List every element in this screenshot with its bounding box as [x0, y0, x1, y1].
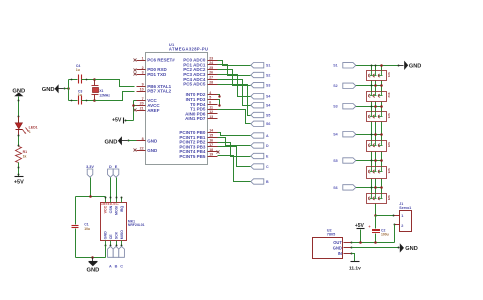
node flag E (MCU side) — [251, 153, 269, 158]
svg-text:25: 25 — [209, 66, 213, 70]
pin 18 unconnected mark — [217, 151, 220, 154]
wire GND to crystal rails — [65, 80, 70, 101]
node flag S1 (MCU side) — [251, 63, 271, 68]
supply +5V (below R1) — [14, 177, 24, 186]
pin CE MK1 (bottom) — [109, 234, 113, 247]
connector SV4 servo header — [367, 141, 392, 152]
svg-text:PB7 XTAL2: PB7 XTAL2 — [147, 89, 171, 94]
wire row S6 to servo bus — [356, 186, 383, 189]
svg-text:SV6: SV6 — [387, 195, 391, 200]
svg-text:CSN: CSN — [109, 205, 113, 213]
svg-text:S6: S6 — [333, 186, 337, 190]
wire U1 to flag A — [218, 133, 251, 136]
svg-text:27: 27 — [209, 76, 213, 80]
wire U1 to flag E — [218, 143, 251, 157]
pin 24 PC1 ADC1 U1 — [183, 61, 217, 67]
pin 8 GND U1 — [137, 137, 158, 143]
svg-text:10u: 10u — [84, 227, 90, 231]
wire +5V to VCC and AVCC — [125, 101, 137, 122]
svg-text:11.1v: 11.1v — [349, 266, 361, 272]
node flag S4 (servo side) — [333, 132, 356, 137]
svg-text:S3: S3 — [266, 84, 270, 88]
pin 19 PCINT5 PB5 U1 — [179, 153, 217, 159]
svg-text:SV5: SV5 — [387, 168, 391, 173]
svg-text:3: 3 — [142, 71, 144, 75]
svg-text:SCK: SCK — [114, 231, 118, 239]
svg-text:PC5 ADC5: PC5 ADC5 — [183, 82, 206, 87]
capacitor C1 10u — [72, 223, 90, 258]
wire R1 to +5V — [18, 163, 20, 177]
node flag S3 (MCU side) — [251, 82, 271, 87]
svg-text:18: 18 — [209, 148, 213, 152]
svg-text:S5: S5 — [266, 113, 270, 117]
connector J1 Servo1 (battery plug) — [394, 202, 412, 231]
node flag B (NRF SCK) — [113, 246, 119, 268]
svg-text:24: 24 — [209, 61, 213, 65]
pin 18 PCINT4 PB4 U1 — [179, 148, 217, 154]
node flag S4 (MCU side) — [251, 94, 271, 99]
svg-text:PD1 TXD: PD1 TXD — [147, 72, 167, 77]
svg-text:16: 16 — [209, 138, 213, 142]
pin 10 PB7 XTAL2 U1 — [137, 87, 172, 93]
wire row S1 to servo bus — [356, 64, 400, 67]
wire U1 to flag S2 row y=75.0 — [218, 65, 251, 76]
wire GND to pin 8 — [129, 140, 137, 142]
wire GND rail to ground — [352, 247, 399, 249]
svg-text:S2: S2 — [266, 73, 270, 77]
svg-text:7: 7 — [142, 97, 144, 101]
node flag C (MCU side) — [251, 164, 269, 169]
svg-text:S4: S4 — [266, 104, 270, 108]
pin 6 T0 PD4 U1 — [190, 101, 217, 107]
pin 21 AREF U1 — [134, 107, 160, 113]
IC U1 ATMEGA328P-PU — [146, 42, 209, 164]
node flag S2 (MCU side) — [251, 72, 271, 77]
svg-text:AIN1 PD7: AIN1 PD7 — [185, 116, 206, 121]
svg-text:MOSI: MOSI — [114, 206, 118, 215]
node flag C (NRF MISO) — [119, 246, 125, 268]
svg-text:C: C — [266, 165, 269, 169]
svg-text:GND: GND — [147, 138, 158, 143]
svg-text:AREF: AREF — [147, 108, 160, 113]
svg-text:9: 9 — [142, 83, 144, 87]
wire servo bus vertical 2 (+5V) — [375, 66, 377, 216]
svg-text:GND: GND — [333, 246, 342, 251]
svg-text:Servo1: Servo1 — [399, 206, 411, 210]
pin 12 AIN0 PD6 U1 — [185, 110, 217, 116]
wire NRF GND to ground and C1 — [76, 246, 106, 259]
supply +5V (MCU VCC) — [112, 118, 123, 124]
svg-text:1u: 1u — [76, 68, 80, 72]
svg-text:4: 4 — [209, 91, 211, 95]
svg-text:1: 1 — [142, 56, 144, 60]
pin 14 PCINT0 PB0 U1 — [179, 129, 217, 135]
pin SCK MK1 (bottom) — [114, 231, 118, 246]
node flag A (NRF CE) — [108, 246, 114, 268]
svg-text:28: 28 — [209, 80, 213, 84]
svg-text:S1: S1 — [266, 64, 270, 68]
svg-text:C: C — [120, 264, 123, 268]
node flag S1 (servo side) — [333, 63, 356, 68]
svg-text:S1: S1 — [333, 64, 337, 68]
pin 28 PC5 ADC5 U1 — [183, 80, 217, 86]
crystal X1 12MHz — [92, 78, 111, 102]
svg-text:S2: S2 — [333, 84, 337, 88]
node flag S2 (servo side) — [333, 83, 356, 88]
svg-text:S6: S6 — [266, 122, 270, 126]
wire OUT rail +5V — [352, 241, 395, 244]
wire J1 pin2 to OUT rail — [394, 225, 396, 243]
svg-text:7805: 7805 — [327, 232, 335, 236]
wire crystal to XTAL2 — [95, 92, 135, 101]
pin 7 VCC U1 — [137, 97, 158, 103]
wire servo bus vertical 3 (GND) — [381, 66, 383, 194]
pin 16 PCINT2 PB2 U1 — [179, 138, 217, 144]
pin 15 PCINT1 PB1 U1 — [179, 134, 217, 140]
wire servo bus to +5V node — [374, 214, 394, 217]
svg-text:2: 2 — [401, 224, 403, 228]
pin 25 PC2 ADC2 U1 — [183, 66, 217, 72]
pin 27 PC4 ADC4 U1 — [183, 76, 217, 82]
wire U1 to flag S5 row y=115.0 — [218, 85, 251, 116]
pin 1 PC6 RESET# U1 — [134, 56, 176, 62]
svg-text:SV4: SV4 — [387, 142, 391, 147]
svg-text:1u: 1u — [78, 93, 82, 97]
ground GND (MCU pin 8) — [105, 136, 130, 145]
svg-text:B: B — [115, 264, 118, 268]
svg-text:1: 1 — [29, 130, 31, 134]
svg-text:D: D — [266, 144, 269, 148]
wire row S4 to servo bus — [356, 133, 383, 136]
node flag S6 (servo side) — [333, 185, 356, 190]
svg-text:1: 1 — [401, 214, 403, 218]
node flag S6 (MCU side) — [251, 121, 271, 126]
svg-text:12: 12 — [209, 110, 213, 114]
node flag E (to NRF MOSI) — [113, 165, 119, 177]
svg-text:D: D — [109, 165, 112, 169]
svg-text:23: 23 — [209, 56, 213, 60]
svg-text:100u: 100u — [381, 232, 389, 236]
svg-text:6: 6 — [209, 101, 211, 105]
svg-text:X1: X1 — [99, 89, 103, 93]
LED LED1 — [15, 117, 37, 136]
capacitor C3 1u — [69, 89, 95, 104]
svg-text:S5: S5 — [333, 159, 337, 163]
svg-text:ATMEGA328P-PU: ATMEGA328P-PU — [169, 47, 209, 52]
pin IRQ MK1 (top) — [120, 197, 124, 213]
svg-text:A: A — [109, 264, 112, 268]
svg-text:GND: GND — [405, 246, 417, 252]
wire GND to LED1 anode — [18, 97, 20, 123]
connector SV1 servo header — [367, 71, 392, 81]
supply +5V (near C2) — [355, 223, 365, 242]
pin 2 PD0 RXD U1 — [134, 66, 168, 72]
svg-text:SV1: SV1 — [387, 72, 391, 77]
svg-text:17: 17 — [209, 143, 213, 147]
svg-text:3.3V: 3.3V — [86, 165, 94, 169]
svg-text:21: 21 — [140, 107, 144, 111]
resistor R1 1k — [16, 147, 28, 163]
svg-text:IN: IN — [338, 251, 342, 256]
svg-text:12MHz: 12MHz — [99, 93, 110, 97]
svg-text:11: 11 — [209, 105, 213, 109]
pin 9 PB6 XTAL1 U1 — [137, 83, 172, 89]
svg-text:E: E — [115, 165, 118, 169]
connector SV6 servo header — [367, 194, 392, 204]
svg-text:GND: GND — [409, 63, 421, 69]
ground GND (crystal cluster) — [42, 84, 66, 93]
svg-text:20: 20 — [140, 102, 144, 106]
pin 26 PC3 ADC3 U1 — [183, 71, 217, 77]
pin 17 PCINT3 PB3 U1 — [179, 143, 217, 149]
node flag D (MCU side) — [251, 143, 269, 148]
wire 3.3V to VCC and C1 — [76, 178, 106, 225]
pin CSN MK1 (top) — [109, 197, 113, 214]
pin MISO MK1 (bottom) — [120, 230, 124, 247]
wire U1 to flag S4 row y=96.2 — [218, 75, 251, 97]
ground GND (regulator) — [398, 243, 418, 252]
pin 4 INT0 PD2 U1 — [186, 91, 218, 97]
ground GND (servo bus top right) — [399, 61, 422, 70]
svg-text:10: 10 — [140, 87, 144, 91]
svg-text:PCINT5 PB5: PCINT5 PB5 — [179, 154, 206, 159]
pin MOSI MK1 (top) — [114, 197, 118, 215]
svg-text:13: 13 — [209, 115, 213, 119]
pin 22 GND U1 — [134, 147, 158, 153]
node flag B (MCU side) — [251, 179, 269, 184]
regulator U2 7805 — [313, 228, 353, 258]
node flag 3.3V supply — [86, 165, 94, 177]
svg-text:VCC: VCC — [104, 205, 108, 213]
connector SV3 servo header — [367, 112, 392, 122]
capacitor C4 1u — [69, 64, 95, 83]
pin 23 PC0 ADC0 U1 — [183, 56, 217, 62]
svg-text:2: 2 — [142, 66, 144, 70]
wire E flag to MOSI — [116, 178, 118, 198]
module MK1 NRF24L01 body — [101, 202, 145, 241]
svg-text:14: 14 — [209, 129, 213, 133]
wire U1 to flag B — [218, 156, 251, 182]
svg-text:GND: GND — [105, 139, 118, 145]
svg-text:A: A — [266, 134, 269, 138]
svg-text:NRF24L01: NRF24L01 — [128, 223, 145, 227]
node flag S4 (MCU side) — [251, 103, 271, 108]
svg-text:OUT: OUT — [333, 240, 342, 245]
svg-text:R1: R1 — [23, 150, 28, 154]
node flag S3 (servo side) — [333, 104, 356, 109]
wire LED1 cathode to R1 — [18, 135, 20, 147]
wire row S3 to servo bus — [356, 105, 383, 108]
wire crystal to XTAL1 — [95, 80, 135, 87]
wire row S2 to servo bus — [356, 84, 383, 87]
svg-text:8: 8 — [142, 137, 144, 141]
pin VCC MK1 (top) — [104, 197, 108, 214]
svg-text:15: 15 — [209, 134, 213, 138]
connector SV5 servo header — [367, 167, 392, 179]
pin 5 INT1 PD3 U1 — [186, 96, 218, 102]
svg-text:22: 22 — [140, 147, 144, 151]
node flag S5 (servo side) — [333, 158, 356, 163]
wire INT0 junction to S4 row — [218, 95, 221, 98]
wire U1 to flag S1 row y=65.2 — [218, 61, 251, 66]
pin 13 AIN1 PD7 U1 — [185, 115, 217, 121]
node flag A (MCU side) — [251, 133, 269, 138]
svg-text:PC6 RESET#: PC6 RESET# — [147, 58, 175, 63]
svg-text:S4: S4 — [333, 133, 337, 137]
wire U1 to flag D — [218, 138, 251, 146]
connector SV2 servo header — [367, 92, 392, 102]
wire U1 to flag C — [218, 147, 251, 167]
svg-text:IRQ: IRQ — [120, 206, 124, 213]
svg-text:+5V: +5V — [14, 180, 24, 186]
wire U1 to flag S3 row y=85.1 — [218, 70, 251, 86]
node flag S5 (MCU side) — [251, 112, 271, 117]
pin 3 PD1 TXD U1 — [134, 71, 167, 77]
svg-text:GND: GND — [86, 268, 99, 274]
svg-text:SV3: SV3 — [387, 113, 391, 118]
svg-text:26: 26 — [209, 71, 213, 75]
svg-text:GND: GND — [104, 231, 108, 239]
svg-text:5: 5 — [209, 96, 211, 100]
ground GND (top-left supply symbol) — [12, 88, 25, 96]
svg-text:MISO: MISO — [120, 230, 124, 239]
wire U1 to flag S4 row y=105.2 — [218, 80, 251, 106]
svg-text:CE: CE — [109, 234, 113, 240]
svg-text:S3: S3 — [333, 105, 337, 109]
svg-text:GND: GND — [147, 148, 158, 153]
wire servo bus vertical 1 — [371, 66, 373, 194]
pin GND MK1 (bottom) — [104, 231, 108, 247]
pin 11 T1 PD5 U1 — [190, 105, 217, 111]
svg-text:LED1: LED1 — [29, 125, 38, 129]
battery 11.1v input — [349, 254, 361, 272]
wire D flag to CSN — [110, 178, 112, 198]
pin 20 AVCC U1 — [137, 102, 161, 108]
wire T1 PD5 to S6 row — [218, 110, 251, 124]
svg-text:+5V: +5V — [112, 118, 122, 124]
wire INT1 junction to S4 second row — [218, 100, 221, 107]
svg-text:19: 19 — [209, 153, 213, 157]
wire row S5 to servo bus — [356, 159, 383, 162]
node flag D (to NRF CSN) — [108, 165, 114, 177]
svg-text:B: B — [266, 180, 269, 184]
capacitor C2 100u — [369, 216, 389, 243]
ground GND (NRF) — [86, 258, 99, 274]
svg-text:GND: GND — [42, 87, 55, 93]
svg-text:SV2: SV2 — [387, 93, 391, 98]
svg-text:S4: S4 — [266, 95, 270, 99]
svg-text:1k: 1k — [23, 154, 27, 158]
